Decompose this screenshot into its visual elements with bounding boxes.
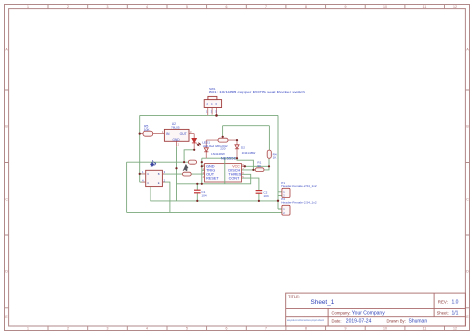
svg-text:104: 104 (201, 194, 206, 198)
title block (286, 293, 466, 326)
svg-text:11: 11 (423, 327, 427, 331)
pin stubs U2 out and LED (189, 134, 194, 139)
wire through 555 body (224, 158, 226, 184)
resistor R1 (255, 168, 264, 172)
junction at R1 left pin (252, 169, 254, 171)
junction at D2 anode (236, 139, 238, 141)
wire D2 lower route to R1 (237, 158, 253, 170)
LED LED1 (192, 138, 197, 143)
junction at LED1 cathode (193, 149, 195, 151)
junction at R6 left corner (183, 161, 185, 163)
svg-text:2019-07-24: 2019-07-24 (346, 319, 372, 325)
svg-text:801: 10/11BB copper ROHS seal: 801: 10/11BB copper ROHS seal Rocker swi… (209, 90, 306, 94)
wire stub to U1 pin1 (140, 173, 146, 175)
svg-text:6: 6 (226, 5, 228, 9)
svg-text:C: C (147, 181, 149, 185)
svg-text:3: 3 (107, 327, 109, 331)
svg-text:Date:: Date: (332, 319, 342, 324)
svg-text:7: 7 (265, 327, 267, 331)
svg-text:Shuman: Shuman (409, 319, 428, 325)
wire C1 verticals (196, 184, 198, 201)
buzzer U1 (4-pin box) (146, 170, 163, 186)
red pin stubs (140, 108, 269, 167)
wire VCC rail (245, 165, 269, 167)
pin stubs R5 (140, 133, 165, 135)
diode D1 (204, 148, 208, 152)
junction at C2 bottom (258, 200, 260, 202)
resistor R6 (on y162 line) (188, 160, 196, 164)
svg-text:10K: 10K (144, 128, 151, 132)
svg-text:1: 1 (27, 5, 29, 9)
header P1 (282, 188, 290, 197)
D2 labels (241, 146, 255, 155)
svg-text:E: E (158, 181, 160, 185)
svg-text:5: 5 (186, 5, 188, 9)
svg-text:1: 1 (27, 327, 29, 331)
svg-text:4: 4 (146, 327, 148, 331)
wire U1 bottom stub (149, 187, 151, 201)
svg-text:2: 2 (67, 5, 69, 9)
title block text (288, 294, 449, 324)
junction SW1 pin on VB rail (215, 114, 218, 117)
resistor R5 (143, 131, 153, 136)
wire LED cathode to net (184, 150, 194, 162)
pin stub D2 (236, 140, 238, 158)
junction at R2 top (222, 136, 224, 138)
svg-text:Header-Female-2.54_1x2: Header-Female-2.54_1x2 (281, 200, 317, 204)
wire bottom rail 2 (127, 211, 282, 213)
svg-text:Your Company: Your Company (352, 310, 385, 316)
wire top rail VB (140, 114, 278, 116)
pin stub 555 VCC (242, 165, 245, 167)
junction at R4 bottom (268, 165, 270, 167)
svg-text:12: 12 (453, 327, 457, 331)
junction at U1 pin 1 (139, 173, 141, 175)
svg-text:C: C (147, 172, 149, 176)
mouse cursor arrow (183, 164, 188, 171)
svg-text:7: 7 (265, 5, 267, 9)
svg-text:10: 10 (383, 5, 387, 9)
wire left loop vertical (126, 162, 128, 212)
wire U1 pin3 to 555 OUT (162, 173, 204, 175)
svg-text:5: 5 (186, 327, 188, 331)
svg-text:NE555D: NE555D (221, 156, 237, 160)
junction at R6 right pin (201, 161, 203, 163)
svg-text:easyeda.com/shuman/new-project: easyeda.com/shuman/new-project-sheet1 (287, 318, 324, 322)
buzzer icon above U1 (151, 160, 156, 166)
wire DISCH to R1 (242, 166, 270, 170)
pin stub U2 gnd (176, 141, 178, 146)
svg-text:78L05: 78L05 (171, 126, 180, 130)
wire VB sub rail (223, 126, 270, 150)
diode D2 (235, 145, 239, 149)
wire left vertical from top rail to U1 pins (139, 115, 141, 182)
svg-text:3: 3 (107, 5, 109, 9)
svg-text:REV:: REV: (438, 299, 448, 304)
wire U1 pin2 drop (162, 182, 170, 212)
svg-text:Drawn By:: Drawn By: (387, 319, 406, 324)
junction on U2 GND column (175, 167, 177, 169)
svg-text:220: 220 (220, 147, 225, 151)
frame row letters (5, 47, 469, 319)
svg-text:1/1: 1/1 (452, 311, 459, 317)
SW1 labels (209, 87, 306, 94)
svg-text:Sheet:: Sheet: (437, 310, 449, 315)
frame row ticks left and right (5, 90, 470, 308)
svg-text:VCC: VCC (232, 165, 240, 169)
pin stub LED cathode (193, 143, 195, 150)
wire right vertical to headers (278, 115, 282, 209)
svg-text:OUT: OUT (180, 132, 187, 136)
svg-text:8: 8 (305, 5, 307, 9)
svg-text:IN: IN (166, 132, 170, 136)
pin stubs stadium resistor R2 (206, 139, 237, 141)
timer IC U3 NE555D (205, 164, 242, 182)
svg-text:103: 103 (263, 194, 268, 198)
capacitor C1 (194, 190, 201, 193)
junction at C1 top (196, 183, 198, 185)
svg-text:1N4148W: 1N4148W (211, 152, 225, 156)
svg-text:RESET: RESET (206, 177, 219, 181)
junction at D2 cathode net (236, 157, 238, 159)
wire R4 bottom (268, 158, 270, 166)
svg-text:1.0: 1.0 (452, 300, 459, 306)
wire THRES loop (177, 174, 251, 184)
junction column B at TRIG net (201, 183, 203, 185)
wire y158 (202, 157, 237, 159)
svg-text:9: 9 (345, 5, 347, 9)
resistor R2 (stadium near LED) (218, 138, 228, 142)
voltage regulator U2 78L05 (164, 129, 189, 141)
capacitor C2 (256, 191, 263, 194)
resistor R4 (vertical) (267, 150, 271, 158)
svg-text:2: 2 (67, 327, 69, 331)
junction at R5 left pin (139, 133, 141, 135)
resistor R7 (on OUT line) (183, 172, 192, 176)
wire column B (202, 158, 205, 184)
wire C2 bottom (258, 193, 260, 201)
svg-text:10: 10 (383, 327, 387, 331)
junction at 555 GND pin (201, 165, 203, 167)
wire CONT to C2 (242, 178, 259, 190)
svg-text:12: 12 (453, 5, 457, 9)
LED1 labels (202, 140, 228, 148)
junction ground rail at header column (277, 200, 279, 202)
svg-text:Company:: Company: (332, 310, 351, 315)
svg-text:GND: GND (173, 138, 181, 142)
svg-text:TITLE:: TITLE: (288, 294, 300, 299)
svg-text:11: 11 (423, 5, 427, 9)
svg-text:D2: D2 (241, 146, 245, 150)
wire horizontal y162 (127, 161, 189, 163)
svg-text:CONT: CONT (229, 177, 240, 181)
wire U2 GND column (176, 146, 178, 201)
pin stubs SW1 (208, 108, 217, 116)
svg-text:Sheet_1: Sheet_1 (311, 299, 335, 306)
svg-text:Header-Female-2.54_1x2: Header-Female-2.54_1x2 (281, 184, 317, 188)
pin stub D1 top and bottom (205, 140, 207, 158)
svg-text:6: 6 (226, 327, 228, 331)
wire stub to U1 pin4 (140, 181, 146, 183)
svg-text:4: 4 (146, 5, 148, 9)
svg-text:8: 8 (305, 327, 307, 331)
pin stub R4 top/bottom (268, 157, 270, 159)
svg-text:9: 9 (345, 327, 347, 331)
rocker switch SW1 (204, 96, 221, 107)
wire bottom rail 1 (150, 200, 278, 202)
header P2 (282, 205, 290, 215)
svg-text:B: B (158, 172, 160, 176)
svg-text:1N4148W: 1N4148W (242, 151, 256, 155)
junction at 555 VCC pin (244, 165, 246, 167)
junction at C1 bottom (196, 200, 198, 202)
